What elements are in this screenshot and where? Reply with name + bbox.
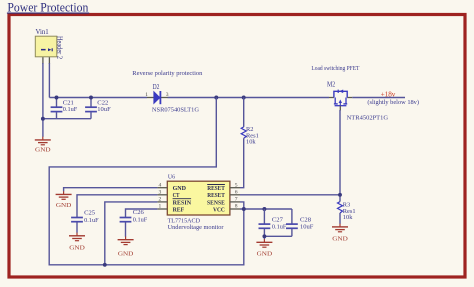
wire gate vertical xyxy=(339,110,341,202)
svg-text:NTR4502PT1G: NTR4502PT1G xyxy=(347,114,389,121)
svg-text:D2: D2 xyxy=(153,83,160,91)
IC U6 xyxy=(157,173,240,231)
junction dot C21 top xyxy=(55,96,59,100)
svg-text:6: 6 xyxy=(235,190,238,196)
svg-text:7: 7 xyxy=(235,197,238,203)
svg-text:RESIN: RESIN xyxy=(173,199,192,206)
pin 6 RESET stub xyxy=(230,194,240,196)
wire Vin1 pin2 to rail xyxy=(48,63,50,98)
svg-text:SENSE: SENSE xyxy=(207,199,225,206)
svg-text:2: 2 xyxy=(159,197,162,203)
svg-text:U6: U6 xyxy=(168,173,176,180)
svg-text:0.1uF: 0.1uF xyxy=(63,106,78,113)
pin 2 RESIN stub xyxy=(157,201,167,203)
svg-text:GND: GND xyxy=(173,185,187,192)
wire RESIN pin down to bottom rail xyxy=(105,202,158,265)
capacitor C21 xyxy=(51,98,78,119)
ground below C25 xyxy=(69,233,85,252)
svg-text:GND: GND xyxy=(118,251,134,258)
svg-text:C25: C25 xyxy=(84,209,96,216)
svg-text:M2: M2 xyxy=(327,80,336,88)
annotation load switching PFET xyxy=(311,65,359,72)
wire C27 C28 bottom link xyxy=(264,235,292,237)
wire main rail middle segment xyxy=(168,97,330,99)
junction dot rail branch R2 xyxy=(242,96,246,100)
svg-text:10uF: 10uF xyxy=(97,106,111,113)
wire rail branch down to RESIN/VCC net xyxy=(49,98,244,265)
svg-text:10uF: 10uF xyxy=(300,224,314,231)
pin 3 CT stub xyxy=(157,194,167,196)
svg-text:0.1uF: 0.1uF xyxy=(84,217,99,224)
svg-text:REF: REF xyxy=(173,206,185,213)
resistor R2 xyxy=(240,98,259,188)
pin 1 REF stub xyxy=(157,208,167,210)
ground below C26 xyxy=(118,237,134,258)
ground below C27 xyxy=(256,239,272,257)
pin 5 RESET stub xyxy=(230,187,240,189)
svg-text:0.1uF: 0.1uF xyxy=(133,217,148,224)
junction dot C22 top xyxy=(89,96,93,100)
ground below Vin1 xyxy=(35,137,51,154)
wire main rail left segment xyxy=(49,97,147,99)
svg-text:RESET: RESET xyxy=(207,185,225,192)
svg-text:GND: GND xyxy=(69,245,85,252)
svg-text:8: 8 xyxy=(235,204,238,210)
pin 7 SENSE stub xyxy=(230,201,240,203)
junction dot C27 top xyxy=(262,207,266,211)
annotation slightly below 18v xyxy=(367,99,419,106)
wire GND pin to ground xyxy=(64,188,158,192)
svg-text:GND: GND xyxy=(56,202,72,209)
capacitor C25 xyxy=(71,209,99,232)
connector Vin1 xyxy=(35,28,62,64)
wire CT pin to C25 xyxy=(77,195,157,217)
svg-text:5: 5 xyxy=(235,182,238,188)
ground below R3 xyxy=(332,224,348,243)
svg-text:RESET: RESET xyxy=(207,192,225,199)
svg-text:C26: C26 xyxy=(133,209,145,216)
junction dot rail branch RESIN/VCC xyxy=(214,96,218,100)
wire capacitor bottom rail xyxy=(43,118,91,120)
svg-text:4: 4 xyxy=(159,182,162,188)
svg-text:+18v: +18v xyxy=(381,90,396,98)
svg-text:VCC: VCC xyxy=(213,206,225,213)
wire main rail right segment to +18v xyxy=(352,97,405,99)
junction dot RESIN bottom xyxy=(103,263,107,267)
svg-text:Power Protection: Power Protection xyxy=(7,0,88,14)
pin 8 VCC stub xyxy=(230,208,240,210)
annotation reverse polarity protection xyxy=(132,70,203,77)
net label +18v xyxy=(381,90,396,98)
capacitor C26 xyxy=(120,209,148,237)
wire VCC node to C27 C28 xyxy=(240,208,292,210)
svg-text:Undervoltage monitor: Undervoltage monitor xyxy=(168,224,225,231)
svg-text:1: 1 xyxy=(145,92,148,98)
svg-text:Load switching PFET: Load switching PFET xyxy=(311,65,359,72)
pin 4 GND stub xyxy=(157,187,167,189)
svg-text:GND: GND xyxy=(332,236,348,243)
junction dot gate/RESET xyxy=(338,193,342,197)
capacitor C28 xyxy=(286,209,314,236)
svg-text:(slightly below 18v): (slightly below 18v) xyxy=(367,99,419,106)
transistor M2 xyxy=(327,80,388,121)
svg-text:3: 3 xyxy=(166,92,169,98)
svg-text:Reverse polarity protection: Reverse polarity protection xyxy=(132,70,203,77)
svg-text:CT: CT xyxy=(173,192,180,199)
capacitor C22 xyxy=(85,98,111,119)
wire SENSE jog to VCC node xyxy=(240,202,244,209)
wire Vin1 pin1 down to ground xyxy=(42,63,44,137)
svg-text:10k: 10k xyxy=(343,214,353,221)
title Power Protection xyxy=(7,0,89,14)
junction dot VCC node xyxy=(242,207,246,211)
svg-text:GND: GND xyxy=(35,146,51,153)
wire RESET to gate net xyxy=(240,194,340,196)
svg-text:3: 3 xyxy=(159,190,162,196)
svg-text:10k: 10k xyxy=(246,139,256,146)
wire REF pin to C26 xyxy=(126,209,158,217)
resistor R3 xyxy=(338,202,356,224)
svg-text:GND: GND xyxy=(257,250,273,257)
diode D2 xyxy=(145,83,199,114)
ground at U6 GND pin xyxy=(56,191,72,209)
wire C27 bottom to ground xyxy=(263,236,265,239)
svg-text:NSR07540SLT1G: NSR07540SLT1G xyxy=(152,106,199,113)
svg-text:0.1uF: 0.1uF xyxy=(272,224,287,231)
junction dot C27 bottom xyxy=(262,234,266,238)
svg-text:Header 2: Header 2 xyxy=(56,36,63,60)
capacitor C27 xyxy=(259,209,287,236)
junction dot cap bottom rail xyxy=(41,117,45,121)
svg-text:C28: C28 xyxy=(300,216,312,223)
svg-text:Vin1: Vin1 xyxy=(36,28,50,36)
svg-text:1: 1 xyxy=(159,204,162,210)
svg-text:C27: C27 xyxy=(272,216,284,223)
